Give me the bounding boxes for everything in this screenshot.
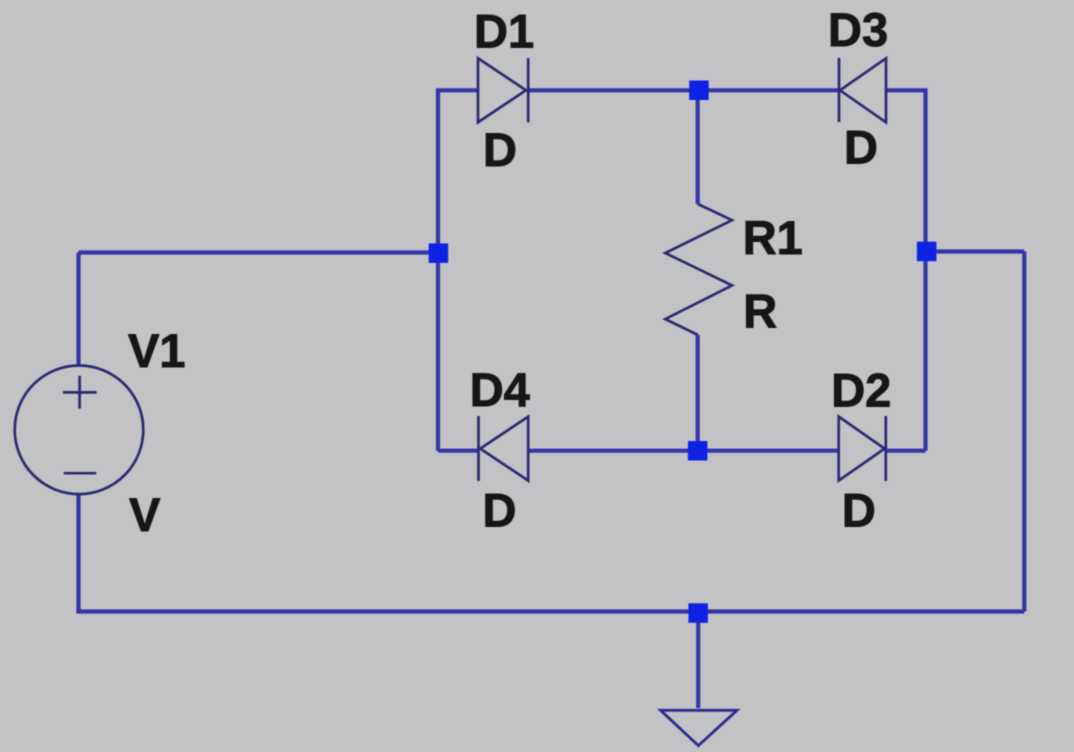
svg-text:D: D [483, 123, 517, 176]
svg-text:D1: D1 [474, 5, 534, 58]
svg-text:D4: D4 [470, 363, 530, 416]
svg-text:D3: D3 [828, 3, 888, 56]
svg-text:D: D [842, 483, 876, 536]
svg-text:V: V [129, 488, 161, 541]
svg-text:V1: V1 [128, 324, 186, 377]
svg-text:D2: D2 [831, 364, 891, 417]
svg-text:R: R [743, 285, 777, 338]
svg-text:D: D [844, 121, 878, 174]
svg-text:D: D [483, 483, 517, 536]
svg-text:R1: R1 [743, 211, 803, 264]
